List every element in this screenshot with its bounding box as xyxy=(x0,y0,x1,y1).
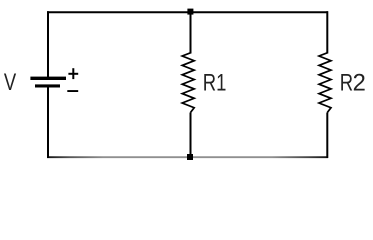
node: bottom junction dot xyxy=(187,154,193,160)
wire: bottom horizontal bus xyxy=(47,156,328,158)
svg-text:V: V xyxy=(4,69,17,96)
resistor R2 zigzag xyxy=(319,53,331,113)
wire: R1 top lead from top bus xyxy=(190,11,192,53)
wire: R1 bottom lead to bottom bus xyxy=(190,113,192,159)
wire: left vertical from top bus to battery + plate xyxy=(47,11,49,77)
svg-text:2: 2 xyxy=(353,69,366,96)
battery V: plus polarity mark xyxy=(68,68,78,79)
node: top junction dot xyxy=(187,9,193,15)
wire: left vertical from battery - plate to bottom bus xyxy=(47,87,49,158)
wire: R2 bottom lead to bottom bus xyxy=(326,113,328,159)
battery V: short negative plate xyxy=(35,84,60,87)
resistor R1 zigzag xyxy=(182,53,194,113)
svg-text:R1: R1 xyxy=(203,69,227,96)
wire: top horizontal bus xyxy=(47,11,328,13)
label R2 xyxy=(340,69,366,96)
svg-text:R: R xyxy=(340,69,353,96)
wire: R2 top lead (right vertical from top bus) xyxy=(326,11,328,53)
battery V: minus polarity mark xyxy=(67,90,78,92)
battery V: long positive plate xyxy=(30,77,66,80)
